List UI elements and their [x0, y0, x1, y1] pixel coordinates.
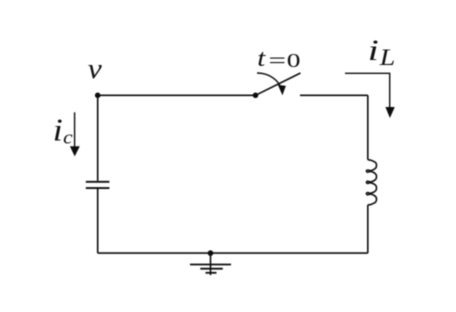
- switch arm (open, t=0): [256, 73, 301, 95]
- node v dot: [95, 93, 101, 99]
- wire right vertical below inductor: [367, 205, 369, 253]
- i_L current arrow (hook): [345, 73, 390, 109]
- ground junction dot: [208, 250, 214, 256]
- svg-text:v: v: [88, 53, 102, 85]
- svg-text:i: i: [368, 34, 379, 67]
- switch left terminal dot: [253, 93, 259, 99]
- wire right vertical above inductor: [367, 95, 369, 159]
- wire bottom: [98, 252, 368, 254]
- svg-text:c: c: [63, 127, 73, 148]
- inductor L (right branch coil): [366, 159, 376, 205]
- wire left vertical below capacitor: [97, 189, 99, 253]
- svg-text:=: =: [269, 48, 287, 73]
- ground symbol: [210, 253, 212, 275]
- wire left vertical above capacitor: [97, 95, 99, 181]
- capacitor C (left branch): [86, 182, 110, 188]
- switch arrowhead: [278, 85, 286, 95]
- switch closing arc: [257, 73, 281, 87]
- svg-text:0: 0: [287, 50, 301, 72]
- svg-text:L: L: [379, 45, 396, 70]
- svg-text:t: t: [257, 46, 267, 72]
- i_c current arrow: [74, 112, 76, 148]
- wire switch-right to top-right corner: [300, 94, 368, 96]
- svg-text:i: i: [53, 112, 63, 148]
- wire top-left (node v to switch): [98, 94, 256, 96]
